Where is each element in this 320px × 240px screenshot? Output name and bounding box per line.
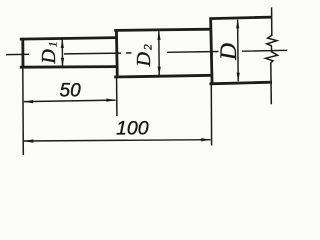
- svg-text:100: 100: [116, 118, 149, 140]
- D1 dimension line: [61, 40, 63, 67]
- arrowhead D2 down: [158, 67, 161, 76]
- arrowhead 50 right: [106, 99, 116, 102]
- dimension line 100: [24, 140, 211, 141]
- D dimension line: [237, 20, 240, 81]
- extension line middle (step 1-2): [116, 78, 118, 116]
- svg-text:D1: D1: [38, 39, 60, 64]
- shaft section 2 outline (middle diameter): [114, 29, 212, 78]
- arrowhead 50 left: [23, 100, 33, 103]
- break line (zigzag) at right end of shaft: [266, 7, 278, 104]
- arrowhead D1 up: [61, 39, 64, 48]
- shaft section 1 outline (small diameter): [20, 38, 117, 69]
- arrowhead D1 down: [61, 58, 64, 67]
- D2 dimension line: [158, 31, 160, 75]
- dimension line 50: [24, 100, 116, 102]
- svg-text:D: D: [216, 43, 242, 61]
- centerline (dash-dot axis): [6, 50, 287, 54]
- svg-text:50: 50: [60, 81, 82, 102]
- extension line left (from section 1 left edge): [22, 68, 25, 155]
- stepped shaft technical drawing: [0, 0, 300, 159]
- arrowhead D2 up: [157, 31, 160, 40]
- arrowhead D down: [237, 73, 240, 82]
- extension line right (step 2-3): [210, 85, 212, 146]
- arrowhead D up: [236, 19, 239, 28]
- arrowhead 100 right: [201, 138, 211, 141]
- svg-text:D2: D2: [133, 42, 155, 67]
- shaft section 3 outline (large diameter): [210, 17, 273, 85]
- arrowhead 100 left: [23, 139, 33, 142]
